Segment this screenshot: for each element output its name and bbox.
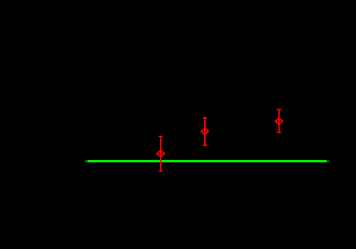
data point 2 vertical error bar xyxy=(203,118,207,146)
data point 3 vertical error bar xyxy=(277,110,281,133)
data point 1 horizontal error bar xyxy=(157,153,165,155)
data point 3 circle marker xyxy=(276,119,281,124)
data point 2 horizontal error bar xyxy=(201,130,208,132)
data point 1 vertical error bar xyxy=(159,136,163,171)
data point 3 horizontal error bar xyxy=(275,120,282,122)
data point 1 circle marker xyxy=(158,151,163,156)
green reference line xyxy=(85,160,329,162)
data point 2 circle marker xyxy=(202,129,207,134)
